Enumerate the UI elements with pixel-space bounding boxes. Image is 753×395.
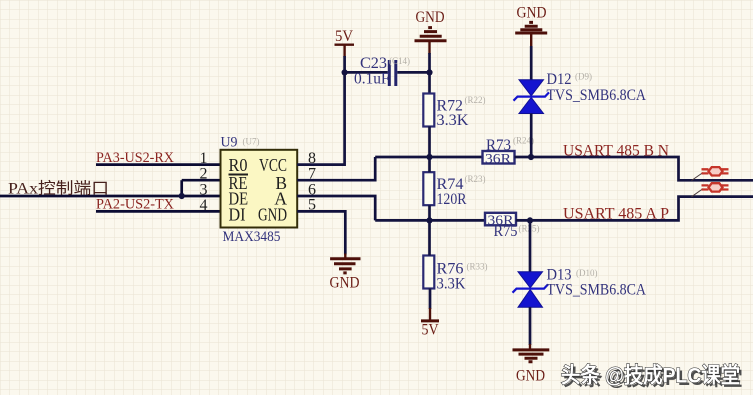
svg-text:36R: 36R xyxy=(485,152,512,167)
svg-text:(R23): (R23) xyxy=(465,174,486,184)
svg-text:5V: 5V xyxy=(422,322,439,339)
svg-text:(R33): (R33) xyxy=(467,262,488,272)
resistor R75 body xyxy=(485,213,516,226)
svg-text:D12: D12 xyxy=(547,71,572,88)
svg-text:5V: 5V xyxy=(335,28,353,45)
svg-text:(U7): (U7) xyxy=(243,137,260,147)
wire D13 to ground xyxy=(529,307,532,345)
ground GND1b bars xyxy=(515,22,547,33)
wire jog pin2-pin3 xyxy=(180,180,183,196)
wire rail B right xyxy=(515,157,753,180)
svg-text:DI: DI xyxy=(229,205,246,225)
diode D13 crossbar xyxy=(513,284,549,292)
wire rail B left xyxy=(375,156,482,159)
capacitor C23 plates xyxy=(388,60,391,86)
svg-text:120R: 120R xyxy=(437,191,467,208)
power 5V bottom bar xyxy=(421,319,439,322)
wire pin7 to rail B xyxy=(297,157,375,180)
capacitor C23 right wire xyxy=(397,71,429,74)
power 5V bottom stem xyxy=(429,308,431,321)
diode D13 TVS lower triangle xyxy=(518,290,543,308)
wire R76 top xyxy=(428,220,431,255)
wire rail A to D13 xyxy=(529,220,532,272)
op-amp U1 IC body MAX3485 xyxy=(221,150,298,228)
svg-text:GND: GND xyxy=(258,205,287,225)
svg-text:R75: R75 xyxy=(494,223,518,240)
svg-text:0.1uF: 0.1uF xyxy=(354,71,390,88)
ground GND3 bars xyxy=(513,350,550,362)
ground GND2 bars xyxy=(330,259,360,273)
resistor R76 body xyxy=(423,256,434,289)
wire pin6 to rail A xyxy=(297,196,375,220)
power 5V top bar xyxy=(335,44,355,46)
resistor R72 body xyxy=(423,94,434,127)
watermark 头条 @技成PLC课堂 xyxy=(561,363,743,391)
capacitor C3 C23 left wire xyxy=(345,71,388,74)
resistor R74 body xyxy=(423,172,434,205)
ground GND1 bars xyxy=(415,28,447,41)
junction node C23 right xyxy=(426,69,432,75)
svg-text:GND: GND xyxy=(416,9,445,26)
diode D13 TVS upper triangle xyxy=(518,272,543,288)
svg-text:(D10): (D10) xyxy=(576,268,598,278)
leader line diff pair 1 xyxy=(692,173,704,181)
svg-text:3.3K: 3.3K xyxy=(437,275,466,292)
wire 5V vertical to pin8 xyxy=(297,56,344,165)
svg-text:MAX3485: MAX3485 xyxy=(223,229,281,245)
ground GND1b stem xyxy=(530,33,532,47)
differential pair directive symbol 1 xyxy=(702,167,729,175)
wire R72 bottom xyxy=(428,127,431,158)
svg-text:PA2-US2-TX: PA2-US2-TX xyxy=(96,197,175,213)
svg-text:(C14): (C14) xyxy=(389,56,410,66)
ground GND2 stem xyxy=(344,254,346,259)
junction node rail B at R72 xyxy=(426,154,432,160)
ground GND1 stem xyxy=(428,41,430,54)
svg-text:2: 2 xyxy=(200,166,208,183)
wire pin5 to ground xyxy=(297,211,345,254)
diode D12 TVS upper triangle xyxy=(519,80,544,96)
svg-text:TVS_SMB6.8CA: TVS_SMB6.8CA xyxy=(547,282,647,299)
svg-text:GND: GND xyxy=(517,5,547,22)
wire pin4 net PA2-US2-TX xyxy=(96,210,221,213)
wire rail A left xyxy=(375,219,485,222)
svg-text:1: 1 xyxy=(200,150,208,167)
diode D12 TVS lower triangle xyxy=(519,98,544,114)
svg-text:GND: GND xyxy=(330,274,360,291)
ground GND3 stem xyxy=(529,344,531,350)
svg-text:(D9): (D9) xyxy=(575,72,592,82)
resistor R73 body xyxy=(483,151,515,164)
wire D12 to rail B xyxy=(530,114,533,158)
differential pair directive symbol 2 xyxy=(702,183,729,191)
svg-text:3.3K: 3.3K xyxy=(437,112,469,129)
junction node pin3 xyxy=(179,193,185,199)
wire pin3 long xyxy=(0,195,221,198)
overline RE xyxy=(229,174,249,176)
svg-text:4: 4 xyxy=(200,197,208,214)
wire GND1b to D12 xyxy=(530,46,533,81)
wire R74 bottom xyxy=(428,205,431,220)
junction node C23 left xyxy=(342,69,348,75)
junction node rail A at R74 xyxy=(426,217,432,223)
svg-text:GND: GND xyxy=(516,368,545,385)
wire GND1 to C23 xyxy=(428,53,431,94)
svg-text:头条 @技成PLC课堂: 头条 @技成PLC课堂 xyxy=(561,363,740,388)
junction node rail B at D12 xyxy=(528,154,534,160)
wire R76 bottom xyxy=(429,289,432,310)
leader line diff pair 2 xyxy=(692,189,704,197)
wire rail A right xyxy=(516,197,753,221)
svg-text:USART 485 A P: USART 485 A P xyxy=(563,205,669,222)
wire pin1 net PA3-US2-RX xyxy=(96,163,221,166)
power 5V top stem xyxy=(343,45,345,57)
svg-text:TVS_SMB6.8CA: TVS_SMB6.8CA xyxy=(547,87,647,104)
svg-text:(R22): (R22) xyxy=(465,95,486,105)
junction node rail A at D13 xyxy=(527,217,533,223)
svg-text:USART 485 B N: USART 485 B N xyxy=(563,142,669,159)
svg-text:PA3-US2-RX: PA3-US2-RX xyxy=(96,150,175,166)
wire R74 top xyxy=(428,157,431,172)
svg-text:C23: C23 xyxy=(360,55,387,72)
wire pin2 stub xyxy=(182,179,221,182)
svg-text:PAx控制端口: PAx控制端口 xyxy=(8,180,109,198)
diode D12 crossbar xyxy=(514,92,550,100)
svg-text:U9: U9 xyxy=(221,135,238,151)
